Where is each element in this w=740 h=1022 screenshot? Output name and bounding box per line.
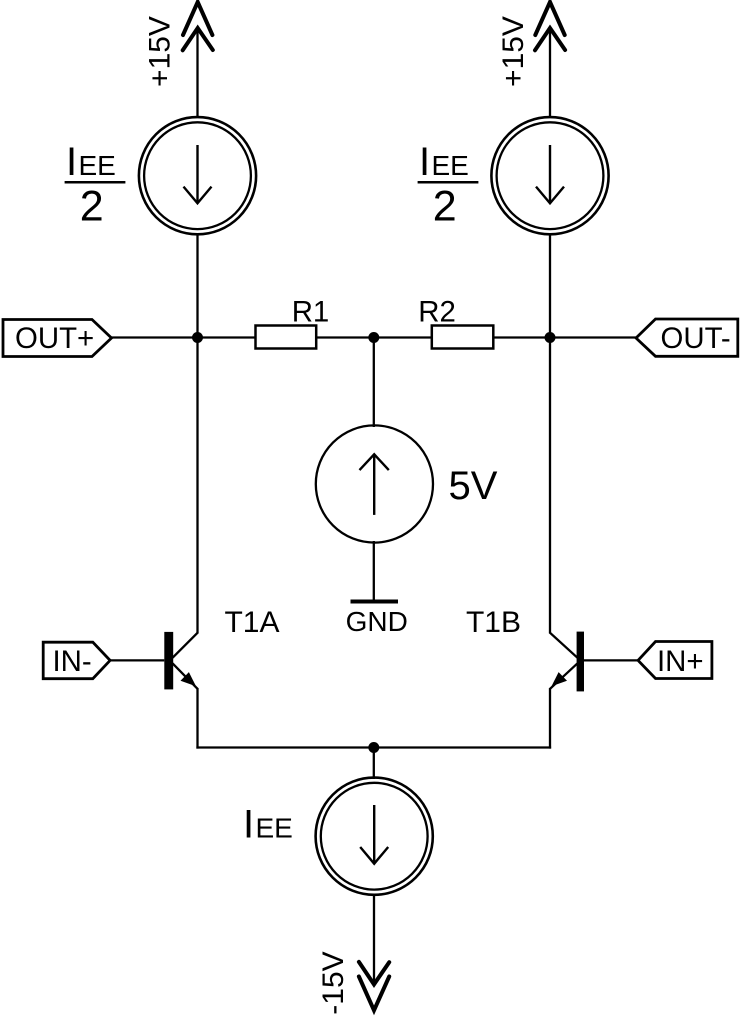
svg-text:IN-: IN- (53, 645, 92, 678)
wire node M down to voltage source V1 (373, 338, 375, 428)
value label IEE (243, 802, 293, 846)
wire T1B emitter down to bottom rail (549, 689, 551, 749)
port flag IN- (43, 642, 110, 679)
wire T1A emitter down to bottom rail (196, 689, 198, 749)
resistor R1 (256, 326, 317, 349)
power symbol +15V (right) double-chevron arrow (535, 2, 565, 50)
node E junction dot (tail) (368, 742, 379, 753)
transistor T1A (NPN, left) (164, 632, 198, 690)
svg-text:-15V: -15V (317, 951, 350, 1014)
current source I3 = IEE (tail): double circle with down arrow (316, 778, 433, 895)
T1A emitter lead (173, 663, 199, 689)
svg-text:+15V: +15V (144, 16, 177, 87)
T1A emitter arrowhead (181, 672, 197, 686)
T1B base bar (577, 632, 584, 692)
svg-text:GND: GND (346, 606, 408, 637)
value label IEE/2 (left fraction) (65, 140, 126, 230)
svg-text:OUT-: OUT- (661, 322, 731, 355)
svg-text:5V: 5V (449, 464, 498, 508)
voltage source V1 5V: circle with up arrow (316, 425, 433, 542)
bottom emitter rail wire (196, 746, 551, 748)
svg-text:I: I (243, 802, 254, 846)
port flag OUT- (636, 319, 738, 356)
node B junction dot (right) (545, 332, 556, 343)
node M junction dot (middle) (368, 332, 379, 343)
wire from +15V arrow to current source I2 (right) (549, 28, 551, 118)
node A junction dot (left) (192, 332, 203, 343)
svg-text:2: 2 (80, 182, 104, 230)
svg-text:2: 2 (433, 182, 457, 230)
svg-text:R1: R1 (292, 295, 330, 328)
value label IEE/2 (right fraction) (418, 140, 479, 230)
svg-text:+15V: +15V (497, 16, 530, 87)
T1B emitter lead (550, 663, 578, 689)
port flag OUT+ (3, 320, 112, 357)
wire right current source to node B (549, 234, 551, 340)
wire node A down to T1A collector (196, 338, 198, 634)
svg-text:IN+: IN+ (657, 645, 704, 678)
wire left current source to node A (196, 234, 198, 340)
power symbol -15V double-chevron arrow (359, 962, 389, 1010)
svg-text:EE: EE (256, 812, 293, 843)
resistor R2 (432, 326, 494, 349)
ground symbol (351, 600, 399, 604)
svg-text:R2: R2 (418, 295, 456, 328)
port flag IN+ (638, 642, 712, 679)
main horizontal output wire (112, 336, 637, 338)
svg-text:I: I (66, 140, 77, 184)
svg-text:T1B: T1B (466, 606, 521, 639)
power symbol +15V (left) double-chevron arrow (183, 2, 213, 50)
wire voltage source V1 to ground (373, 541, 375, 601)
T1B emitter arrowhead (552, 672, 568, 686)
wire IN+ flag to T1B base (584, 659, 638, 661)
current source I1 = IEE/2 (left): double circle with down arrow (139, 117, 256, 234)
transistor T1B (NPN, right) (550, 632, 585, 692)
wire node E down to current source I3 (373, 748, 375, 780)
T1B collector lead (550, 632, 578, 658)
current source I2 = IEE/2 (right): double circle with down arrow (491, 117, 608, 234)
wire node B down to T1B collector (549, 338, 551, 634)
wire from +15V arrow to current source I1 (left) (196, 28, 198, 118)
wire IN- flag to T1A base (110, 659, 164, 661)
T1A collector lead (173, 632, 199, 658)
svg-text:EE: EE (432, 150, 469, 181)
T1A base bar (164, 632, 173, 690)
svg-text:OUT+: OUT+ (15, 322, 94, 355)
svg-text:T1A: T1A (224, 606, 279, 639)
wire current source I3 to -15V arrow (373, 894, 375, 984)
svg-text:I: I (419, 140, 430, 184)
svg-text:EE: EE (79, 150, 116, 181)
